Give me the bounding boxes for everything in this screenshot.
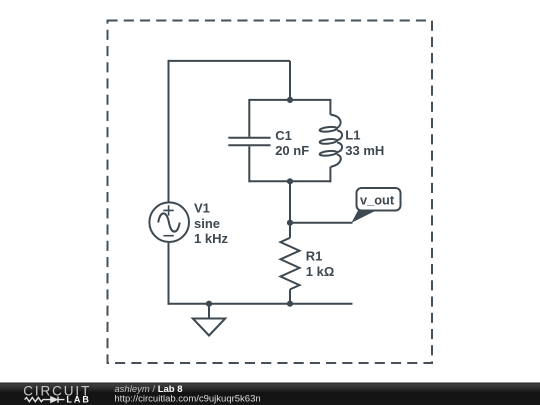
wire tank bottom to v_out node [289, 181, 291, 223]
label R1 1 kOhm [306, 249, 335, 279]
svg-text:1 kΩ: 1 kΩ [306, 264, 335, 279]
wire tank bottom [249, 180, 330, 182]
wire from top wire down to tank top [289, 61, 291, 100]
node dot tank bottom [287, 178, 293, 184]
wire top horizontal [169, 60, 291, 62]
node dot bottom rail ground [206, 301, 212, 307]
footer bar [0, 383, 540, 405]
svg-text:1 kHz: 1 kHz [194, 231, 228, 246]
label V1 sine 1 kHz [194, 201, 228, 247]
svg-text:R1: R1 [306, 249, 323, 264]
capacitor C1 [228, 99, 270, 182]
inductor L1 [319, 99, 342, 182]
ground [193, 304, 225, 336]
wire v_out tap horizontal [290, 222, 353, 224]
svg-text:v_out: v_out [360, 193, 395, 208]
svg-text:LAB: LAB [66, 395, 91, 405]
node dot bottom rail R1 [287, 301, 293, 307]
svg-text:V1: V1 [194, 201, 210, 216]
label L1 33 mH [345, 128, 384, 158]
voltage source V1 [149, 202, 189, 304]
node dot v_out tap [287, 220, 293, 226]
svg-text:sine: sine [194, 216, 220, 231]
wire bottom horizontal [168, 303, 353, 305]
svg-text:C1: C1 [275, 128, 292, 143]
schematic selection dashed border [108, 21, 433, 364]
svg-text:http://circuitlab.com/c9ujkuqr: http://circuitlab.com/c9ujkuqr5k63n [114, 393, 260, 404]
label C1 20 nF [275, 128, 309, 158]
svg-text:L1: L1 [345, 128, 360, 143]
wire left vertical (top to V1) [168, 60, 170, 203]
node dot tank top [287, 97, 293, 103]
wire tank top [249, 99, 330, 101]
svg-text:33 mH: 33 mH [345, 143, 384, 158]
svg-text:20 nF: 20 nF [275, 143, 309, 158]
resistor R1 [281, 223, 300, 304]
net flag v_out [352, 188, 401, 223]
logo resistor-diode squiggle [25, 397, 65, 403]
